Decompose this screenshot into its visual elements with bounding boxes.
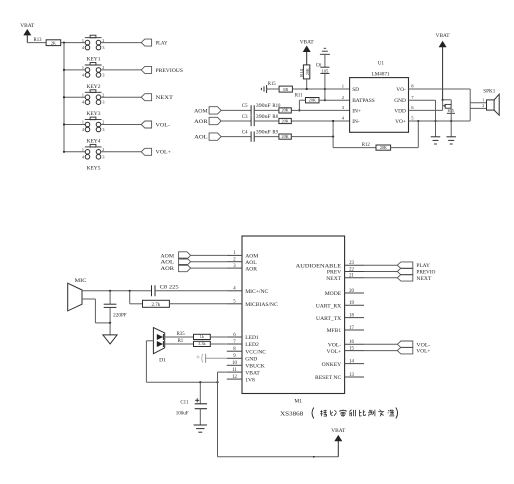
wire VO- to speaker [409,88,471,90]
ground (rotated, at R15) [261,85,266,93]
pin 11 stub [227,371,242,373]
node 220PF/gnd junction [109,322,111,324]
port PREVIOUS [141,66,151,73]
svg-text:VCC/NC: VCC/NC [245,349,266,355]
svg-text:4: 4 [82,154,85,159]
capacitor 220PF [109,291,111,304]
svg-text:VBUCK: VBUCK [245,364,265,370]
svg-text:1: 1 [82,38,84,43]
pin 23 stub [345,264,364,266]
svg-text:VBAT: VBAT [20,23,35,29]
svg-text:MIC: MIC [75,278,87,284]
wire KEY1 to port [101,42,141,44]
svg-text:1k: 1k [200,334,205,339]
pushbutton KEY4 [82,117,105,132]
svg-text:VO+: VO+ [395,119,406,125]
wire KEY5 to port [101,151,141,153]
svg-text:21: 21 [349,274,354,279]
svg-text:2: 2 [482,103,484,108]
svg-text:VBAT: VBAT [245,370,260,376]
svg-text:R35: R35 [177,332,186,337]
wire AOR to C3 [221,120,251,122]
pin 13 stub [345,376,364,378]
capacitor C8 225 [151,285,153,296]
wire KEY3 to port [101,96,141,98]
ground (mic, open triangle) [103,335,117,344]
svg-text:UART_TX: UART_TX [316,316,341,322]
svg-text:7: 7 [411,95,414,100]
svg-text:20K: 20K [309,98,316,103]
pin 6 stub [227,336,242,338]
svg-text:VOL+: VOL+ [416,349,430,355]
op-amp U1 LM4871 [350,78,409,133]
svg-text:UART_RX: UART_RX [316,304,341,310]
port VOL+ (XS3868) [397,347,413,354]
svg-text:3: 3 [102,127,104,132]
svg-text:MFB1: MFB1 [327,328,342,334]
wire LED1 cathode [165,336,194,338]
capacitor C5 390nF [250,105,252,115]
ground (inverted, above C6) [320,48,330,54]
wire LED2 cathode [165,343,194,345]
wire C5 to R10 [254,109,279,111]
node R9/R12 junction [332,136,334,138]
svg-text:5: 5 [411,116,414,121]
svg-text:3: 3 [102,45,104,50]
wire bus to KEY2 [64,69,85,71]
wire VBAT bottom run [218,456,339,458]
wire KEY4 to port [101,124,141,126]
svg-text:R1: R1 [178,339,184,344]
node cap/VO+ crossing [450,120,452,122]
svg-text:1: 1 [82,65,84,70]
pin 2 stub [227,261,242,263]
pin 7 stub [227,343,242,345]
wire MIC+ to C8 [82,290,152,292]
capacitor C6 105 [324,54,326,67]
wire R35 to pin 6 [210,336,227,338]
wire C8 to pin 4 [155,290,227,292]
node bus junction KEY3 [63,96,65,98]
svg-text:19: 19 [349,301,354,306]
svg-text:D1: D1 [159,357,166,363]
svg-text:2: 2 [102,147,104,152]
svg-text:22: 22 [349,267,354,272]
node MIC/220PF junction [109,290,111,292]
svg-text:2: 2 [102,92,104,97]
svg-text:KEY5: KEY5 [87,167,102,172]
wire to SPK pin1 [470,102,486,104]
capacitor (unstuffed, pin 9) [206,357,227,359]
svg-text:18: 18 [349,313,354,318]
svg-text:4: 4 [82,100,85,105]
svg-text:17: 17 [349,326,354,331]
svg-text:390nF: 390nF [256,130,271,135]
svg-text:R12: R12 [362,143,371,148]
svg-text:AUDIOENABLE: AUDIOENABLE [296,263,342,269]
pin 21 stub [345,277,364,279]
node R12/VO+ junction [417,120,419,122]
svg-text:VOL+: VOL+ [327,349,342,355]
wire pin 16 to VOL- [364,343,397,345]
pin 10 stub [227,364,242,366]
wire pin 15 to VOL+ [364,350,397,352]
ground (output bypass) [446,136,456,138]
pin 12 stub [227,378,242,380]
svg-text:GND: GND [394,98,406,104]
wire pin 22 to PREVIO [364,271,397,273]
pin 16 stub [345,343,364,345]
svg-text:U1: U1 [378,62,385,67]
wire R12 to VO+ [391,147,419,149]
wire R8 to IN- [291,120,349,122]
svg-text:20K: 20K [380,145,387,150]
wire R13 to key bus [61,42,86,44]
pushbutton KEY3 [82,90,105,105]
wire bus to KEY5 [64,151,85,153]
svg-text:100uF: 100uF [176,412,189,417]
pushbutton KEY5 [82,144,105,159]
node rail/C11 junction [199,381,201,383]
svg-text:VOL-: VOL- [328,343,341,349]
svg-text:6: 6 [411,105,414,110]
pin 15 stub [345,350,364,352]
port VOL+ [141,148,151,155]
pin 5 stub [227,303,242,305]
svg-text:SD: SD [352,87,359,93]
svg-text:R9: R9 [272,130,278,135]
pin 14 stub [345,363,364,365]
svg-text:2: 2 [342,95,345,100]
wire VBAT to R13 [27,42,46,44]
svg-text:KEY4: KEY4 [87,139,102,144]
pin 9 stub [227,357,242,359]
pin 18 stub [345,317,364,319]
resistor 2.7k (mic bias) [129,291,131,304]
svg-text:AOM: AOM [161,253,175,259]
wire R15 to U1 SD [292,88,349,90]
svg-text:VO-: VO- [396,87,406,93]
node bus junction KEY5 [63,151,65,153]
pin 17 stub [345,329,364,331]
capacitor C3 390nF [250,116,252,126]
svg-text:KEY3: KEY3 [87,112,102,117]
node VBAT/cap branch [442,99,444,101]
svg-text:AOR: AOR [161,266,175,272]
wire bus to KEY3 [64,96,85,98]
svg-text:C3: C3 [242,115,248,120]
svg-text:2.7k: 2.7k [152,303,161,308]
pushbutton KEY2 [82,63,105,78]
wire IN- node to R12 [332,137,334,148]
svg-text:R15: R15 [268,82,277,87]
wire VO+ to speaker [409,120,471,122]
svg-text:PREVIOUS: PREVIOUS [156,68,184,74]
svg-text:390nF: 390nF [256,104,271,109]
LED D1 [153,328,164,354]
wire AOM to C5 [221,109,251,111]
pushbutton KEY1 [82,35,105,50]
svg-text:VBAT: VBAT [300,40,315,46]
svg-text:220PF: 220PF [113,314,127,319]
node R11/IN+ junction [298,109,300,111]
wire R14 to SD line [306,79,308,89]
svg-text:15: 15 [349,346,354,351]
port PLAY [141,39,151,46]
wire bus to KEY4 [64,124,85,126]
wire pin 23 to PLAY [364,264,397,266]
svg-text:0R: 0R [283,87,288,92]
label Chinese note glyphs [320,410,394,417]
svg-text:GND: GND [245,357,257,363]
node key bus junction [63,42,65,44]
svg-text:2: 2 [102,120,104,125]
svg-text:10: 10 [232,361,237,366]
svg-text:8: 8 [411,84,414,89]
capacitor C4 390nF [250,131,252,141]
svg-text:XS3868: XS3868 [280,411,303,417]
wire MIC- return [82,298,95,300]
svg-text:R8: R8 [272,115,278,120]
svg-text:105: 105 [321,68,329,73]
svg-text:PREVIO: PREVIO [416,270,435,276]
svg-text:2K: 2K [51,40,56,45]
svg-text:20K: 20K [281,118,288,123]
node rail/VBAT junction [216,381,218,383]
wire gnd to R15 [267,88,280,90]
wire R9 to IN- node [291,136,333,138]
svg-text:3: 3 [102,154,104,159]
svg-text:C8 225: C8 225 [160,285,180,290]
svg-text:RESET NC: RESET NC [315,375,341,381]
svg-text:4: 4 [342,116,345,121]
svg-text:MICBIAS/NC: MICBIAS/NC [245,302,278,308]
svg-text:R10: R10 [272,104,281,109]
capacitor C7 105 (output bypass) [443,99,452,101]
port NEXT [397,275,413,282]
svg-text:1: 1 [342,84,345,89]
svg-text:AOL: AOL [194,135,208,141]
svg-text:AOR: AOR [245,266,257,272]
svg-text:PREV: PREV [327,270,341,276]
node R9/IN- junction [332,120,334,122]
svg-text:MODE: MODE [325,291,342,297]
node bus junction KEY4 [63,123,65,125]
svg-text:13: 13 [349,373,354,378]
port VOL- [141,121,151,128]
svg-text:LED2: LED2 [245,342,259,348]
svg-text:3.3k: 3.3k [198,341,206,346]
svg-text:1: 1 [82,92,84,97]
svg-text:AOM: AOM [194,108,208,114]
svg-text:VBAT: VBAT [436,33,451,39]
node C6/SD crossing junction [324,88,326,90]
pin 19 stub [345,304,364,306]
svg-text:16: 16 [349,340,354,345]
svg-text:C11: C11 [180,400,189,405]
svg-text:KEY1: KEY1 [87,58,102,63]
capacitor C11 100uF [199,382,201,404]
svg-text:VOL+: VOL+ [156,150,172,156]
node R14/SD junction [306,88,308,90]
svg-text:VDD: VDD [394,108,406,114]
node gnd/VO+ crossing [434,120,436,122]
svg-text:SPK1: SPK1 [483,90,495,95]
wire AOM to pin 1 [191,254,227,256]
svg-text:1V8: 1V8 [245,377,255,383]
svg-text:23: 23 [349,261,354,266]
port PREVIO [397,268,413,275]
wire D1 anode to VBAT rail [146,340,153,342]
svg-text:LM4871: LM4871 [372,73,391,78]
svg-text:2: 2 [102,38,104,43]
svg-text:M1: M1 [294,398,302,404]
svg-text:12: 12 [232,375,237,380]
port PLAY [397,262,413,269]
wire R11 left leg [299,99,305,101]
svg-text:PLAY: PLAY [416,263,430,269]
node bus junction KEY2 [63,69,65,71]
svg-text:IN+: IN+ [352,108,361,114]
node C6/BATPASS junction [324,99,326,101]
wire R10 to IN+ [291,109,349,111]
svg-text:VBAT: VBAT [331,428,346,434]
wire to mic ground [109,323,111,335]
wire AOR to pin 3 [191,267,227,269]
pin 22 stub [345,271,364,273]
svg-text:20K: 20K [305,68,310,75]
svg-text:ONKEY: ONKEY [322,362,342,368]
svg-text:IN-: IN- [352,119,360,125]
svg-text:20: 20 [349,289,354,294]
svg-text:VOL-: VOL- [156,122,171,128]
svg-text:AOR: AOR [194,119,208,125]
wire key bus vertical [63,43,65,152]
svg-text:AOL: AOL [161,260,175,266]
wire VBAT to VDD [442,100,444,111]
wire GND pin to ground [409,99,436,101]
svg-text:C4: C4 [242,130,248,135]
svg-text:R11: R11 [295,93,303,98]
svg-text:KEY2: KEY2 [87,85,102,90]
ground (amp GND pin) [431,136,441,138]
svg-text:NEXT: NEXT [416,276,432,282]
wire C4 to R9 [254,136,279,138]
svg-text:PLAY: PLAY [156,41,168,47]
svg-text:14: 14 [349,359,354,364]
pin 1 stub [227,254,242,256]
wire R1 to pin 7 [210,343,227,345]
svg-text:11: 11 [232,368,237,373]
svg-text:4: 4 [82,72,85,77]
svg-text:BATPASS: BATPASS [352,98,375,104]
svg-text:20K: 20K [281,108,288,113]
svg-text:VOL-: VOL- [416,342,430,348]
wire R11 to BATPASS [319,99,350,101]
wire KEY2 to port [101,69,141,71]
wire 2.7k to pin 5 [169,303,226,305]
wire C3 to R8 [254,120,279,122]
svg-text:1: 1 [82,147,84,152]
svg-text:4: 4 [82,127,85,132]
svg-text:MIC+/NC: MIC+/NC [245,289,268,295]
svg-text:LED1: LED1 [245,335,259,341]
svg-text:3: 3 [342,105,345,110]
IC M1 XS3868 [242,236,345,394]
wire AOL to pin 2 [191,261,227,263]
svg-text:2: 2 [102,65,104,70]
svg-text:390nF: 390nF [256,115,271,120]
pin 8 stub [227,350,242,352]
svg-text:AOL: AOL [245,260,257,266]
wire to SPK pin2 [470,107,486,109]
svg-text:4: 4 [82,45,85,50]
svg-text:20K: 20K [281,134,288,139]
svg-text:NEXT: NEXT [156,95,174,101]
wire pin 21 to NEXT [364,277,397,279]
svg-text:1: 1 [82,120,84,125]
svg-text:3: 3 [102,100,104,105]
svg-text:AOM: AOM [245,254,258,260]
node MIC/2.7k junction [129,290,131,292]
pin 4 stub [227,290,242,292]
svg-text:1: 1 [482,98,484,103]
svg-text:C5: C5 [242,104,248,109]
pin 3 stub [227,267,242,269]
svg-text:3: 3 [102,72,104,77]
port VOL- (XS3868) [397,341,413,348]
pin 20 stub [345,292,364,294]
wire AOL to C4 [221,136,251,138]
svg-text:NEXT: NEXT [326,276,341,282]
port NEXT [141,94,151,101]
ground (C11) [194,424,208,426]
wire pin 11 VBAT down [218,371,227,373]
